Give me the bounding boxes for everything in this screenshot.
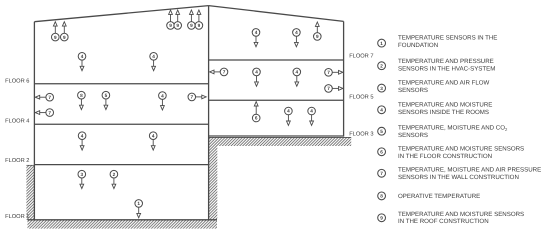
sensor 8 operative temp [78,91,86,109]
sensor 4 floor3 room right [308,107,316,125]
svg-text:FLOOR 6: FLOOR 6 [5,78,29,84]
svg-text:9: 9 [169,23,172,28]
sensor 9 roof pair A2 [61,22,69,41]
svg-text:TEMPERATURE AND MOISTURESENSOR: TEMPERATURE AND MOISTURESENSORS INSIDE T… [398,101,492,116]
sensor 4 floor5 room right [293,68,301,86]
svg-text:4: 4 [255,30,258,35]
svg-text:FLOOR 7: FLOOR 7 [349,54,373,60]
svg-text:FLOOR 4: FLOOR 4 [5,118,29,124]
floor 7 slab line [209,59,344,61]
svg-text:9: 9 [176,23,179,28]
svg-text:3: 3 [380,86,383,91]
legend item 5 symbol [378,127,386,135]
legend item 2 symbol [378,62,386,70]
earth band right of shared wall [209,146,218,220]
sensor 3 air flow [78,170,86,188]
svg-text:7: 7 [327,70,330,75]
svg-text:4: 4 [255,70,258,75]
svg-text:7: 7 [380,171,383,176]
svg-text:4: 4 [295,30,298,35]
sensor 4 floor3 room left [285,107,293,125]
sensor 7 wall left lower [35,109,53,117]
floor 2 slab line [34,164,208,166]
svg-text:4: 4 [161,93,164,98]
sensor 4 floor4 room left [78,132,86,150]
svg-text:8: 8 [380,194,383,199]
svg-text:FLOOR 1: FLOOR 1 [5,214,29,220]
ground surface tick left of left wall [26,164,34,166]
roof left slope [34,6,208,22]
sensor 9 annex roof [314,22,322,40]
svg-text:TEMPERATURE AND PRESSURESENSOR: TEMPERATURE AND PRESSURESENSORS IN THE H… [398,58,495,73]
svg-text:9: 9 [316,34,319,39]
svg-text:4: 4 [152,54,155,59]
svg-text:8: 8 [80,93,83,98]
svg-text:2: 2 [380,63,383,68]
sensor 7 wall left upper [35,93,53,101]
sensor 4 floor7 room left [252,29,260,47]
legend item 8 symbol [378,192,386,200]
svg-text:4: 4 [152,133,155,138]
sensor 4 floor4 room right [149,132,157,150]
legend item 1 symbol [378,39,386,47]
svg-text:4: 4 [81,133,84,138]
sensor 6 floor construction [252,102,260,122]
svg-text:9: 9 [54,35,57,40]
svg-text:7: 7 [327,86,330,91]
legend item 9 symbol [378,214,386,222]
svg-text:7: 7 [48,95,51,100]
sensor 9 roof pair C1 [188,10,196,29]
floor 4 slab line [34,123,208,125]
sensor 4 floor6 room left [78,53,86,71]
sensor 4 floor7 room right [293,29,301,47]
sensor 5 co2 [102,91,110,109]
ground hatch strip right of annex (floor 3 level) [209,137,352,146]
legend item 4 symbol [378,106,386,114]
sensor 9 roof pair B1 [167,10,175,29]
svg-text:2: 2 [113,172,116,177]
svg-text:7: 7 [223,70,226,75]
svg-text:4: 4 [380,108,383,113]
sensor 4 room mid [159,92,167,110]
shared centre wall [208,6,210,220]
svg-text:9: 9 [63,35,66,40]
svg-text:5: 5 [380,129,383,134]
svg-text:FLOOR 3: FLOOR 3 [349,131,373,137]
svg-text:6: 6 [255,116,258,121]
sensor 9 roof pair B2 [174,10,182,29]
legend item 6 symbol [378,148,386,156]
svg-text:9: 9 [198,23,201,28]
ground hatch strip under building [28,220,218,228]
svg-text:9: 9 [190,23,193,28]
annex right wall [343,21,345,136]
floor 3 slab line [209,135,344,137]
left wall [33,22,35,220]
sensor 7 wall right of main [188,93,206,101]
svg-text:7: 7 [190,95,193,100]
legend item 7 symbol [378,169,386,177]
svg-text:9: 9 [380,216,383,221]
sensor 9 roof pair A1 [52,22,60,41]
svg-text:3: 3 [80,172,83,177]
svg-text:4: 4 [295,70,298,75]
svg-text:5: 5 [105,93,108,98]
sensor 7 annex wall left [210,68,228,76]
sensor 1 foundation [135,200,143,218]
legend item 3 symbol [378,84,386,92]
svg-text:FLOOR 2: FLOOR 2 [5,158,29,164]
svg-text:4: 4 [287,109,290,114]
svg-text:FLOOR 5: FLOOR 5 [349,94,373,100]
floor 5 slab line [209,99,344,101]
ground surface line at floor 3 level [209,136,352,138]
building bottom line (floor 1 slab) [28,219,218,221]
earth band left of left wall [26,165,34,220]
sensor 7 annex wall right upper [325,69,343,77]
sensor 4 floor6 room right [150,53,158,71]
svg-text:OPERATIVE TEMPERATURE: OPERATIVE TEMPERATURE [398,193,480,200]
sensor 7 annex wall right lower [325,85,343,93]
svg-text:1: 1 [380,41,383,46]
sensor 9 roof pair C2 [195,10,203,29]
svg-text:6: 6 [380,150,383,155]
sensor 4 floor5 room left [253,68,261,86]
sensor 2 hvac [110,170,118,188]
svg-text:4: 4 [310,109,313,114]
svg-text:7: 7 [48,110,51,115]
svg-text:1: 1 [137,201,140,206]
floor 6 slab line [34,83,208,85]
roof right slope [209,6,344,22]
svg-text:4: 4 [81,54,84,59]
